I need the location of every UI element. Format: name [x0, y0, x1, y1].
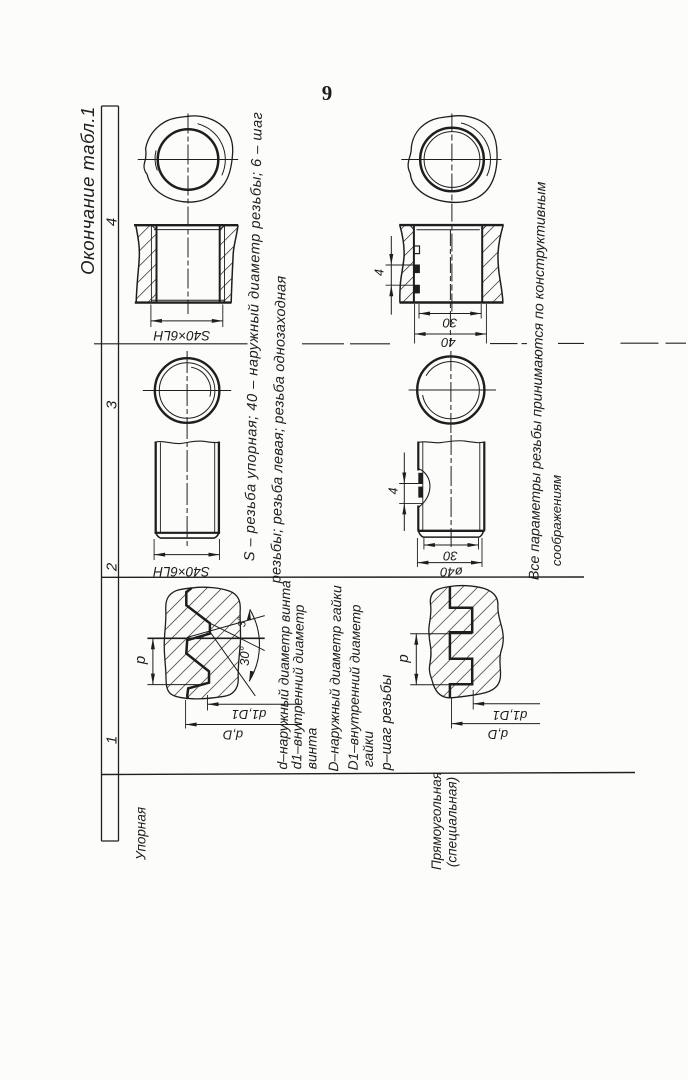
D6 blob outline: [408, 116, 497, 203]
D5 right part hatching: [186, 588, 240, 699]
D1-D2 vertical centerline: [187, 114, 189, 315]
D2 left wall hatching: [136, 225, 157, 302]
D9 right minor thin line: [479, 443, 481, 531]
D7 thread tooth lower: [414, 285, 420, 293]
D9 thread tooth lower: [418, 487, 423, 498]
svg-text:Упорная: Упорная: [134, 807, 149, 861]
D7 right wall hatching: [482, 225, 503, 302]
D2 right thread major line (thin): [224, 226, 226, 302]
D7 chamfer corner right: [482, 225, 486, 230]
D9 dim 30 arrows: [424, 543, 479, 547]
svg-text:d1,D1: d1,D1: [493, 708, 528, 723]
D5 d,D extension line: [185, 700, 187, 729]
D2 chamfer corner right: [220, 225, 225, 229]
D5 reference horizontal line: [147, 637, 264, 639]
svg-text:d,D: d,D: [488, 727, 508, 742]
D7 left bore line thick: [413, 226, 415, 303]
D5 left part hatching: [164, 588, 210, 699]
D1 thin thread arc top-right: [198, 124, 226, 176]
svg-text:9: 9: [322, 81, 333, 105]
D8 inner thin arc: [423, 362, 480, 419]
D7 dim 30 line: [419, 313, 481, 315]
D7 pitch dim extension upper: [386, 264, 420, 266]
D6 inner thin circle: [424, 132, 480, 188]
D7 centerline: [449, 230, 451, 345]
D1 thin arc left: [155, 151, 157, 171]
drawing D7: nut section with rectangular thread (row 4 right): [386, 225, 504, 345]
D2 right bore line (thick): [219, 226, 221, 302]
drawing D2: nut section view (row 4 left): [134, 225, 238, 327]
drawing D6: nut end view (row 4 right): [401, 114, 501, 315]
D9 dim 30 extension lines: [423, 538, 425, 550]
D7 pitch dim extension lower: [386, 284, 420, 286]
D10 right part hatching: [450, 586, 503, 698]
D8-D9 vertical centerline: [450, 351, 452, 547]
svg-text:Все параметры резьбы принимают: Все параметры резьбы принимаются по конс…: [527, 181, 550, 580]
D10 pitch dim arrows: [414, 634, 418, 685]
svg-text:d1,D1: d1,D1: [232, 707, 267, 722]
D4 right outer line thick: [218, 442, 220, 533]
D4 dimension arrows: [154, 553, 219, 557]
svg-text:гайки: гайки: [361, 731, 376, 768]
D10 d1,D1 extension line: [472, 690, 474, 710]
D5 blob outline: [164, 587, 240, 699]
D9 pitch dim arrows outside: [402, 473, 406, 515]
D9 end cap: [418, 531, 483, 537]
D9 notch scallop arc: [418, 469, 430, 508]
svg-text:d,D: d,D: [223, 728, 243, 743]
D9 pitch dim extension lower: [399, 502, 423, 504]
D5 d1,D1 extension line: [207, 695, 209, 711]
D4 top broken edge: [155, 441, 221, 444]
svg-text:резьбы; резьба левая; резьба о: резьбы; резьба левая; резьба однозаходна…: [268, 276, 289, 585]
row separator 3: [102, 773, 636, 775]
D10 pitch dimension line: [415, 634, 417, 685]
D7 dim 30 arrows: [419, 312, 481, 316]
D6 thin thread arc top-right: [461, 123, 491, 176]
D4 left minor line thin: [159, 443, 161, 533]
D7 top chamfer line: [417, 229, 480, 231]
svg-text:ø40: ø40: [440, 565, 463, 580]
svg-text:4: 4: [373, 269, 387, 276]
svg-text:соображениям: соображениям: [549, 475, 564, 566]
D5 flank extension line upper: [187, 616, 265, 638]
D7 thread tooth middle: [414, 265, 420, 273]
D2 dimension extension right: [222, 305, 224, 328]
D7 dim 40 line: [415, 333, 487, 335]
D5 flank extension line lower: [210, 632, 255, 696]
D4 end cap: [156, 533, 219, 538]
D7 dim 40 arrows: [415, 332, 487, 336]
D9 left outer line lower: [417, 506, 419, 531]
D2 chamfer corner left: [151, 225, 156, 229]
D9 dim ø40 line: [417, 562, 482, 564]
D3 horizontal centerline: [143, 390, 231, 392]
D2 left outer broken edge: [136, 225, 140, 302]
drawing D1: nut end view (row 4 left): [138, 114, 238, 315]
svg-text:р: р: [132, 656, 149, 665]
drawing D4: threaded sleeve side view (row 3 left): [154, 441, 220, 560]
svg-text:р: р: [395, 654, 412, 663]
drawing D9: threaded sleeve side view with notch (row 3 right): [399, 441, 485, 567]
D9 top broken edge: [418, 441, 485, 443]
svg-text:(специальная): (специальная): [445, 777, 460, 867]
D4 dimension extension right: [219, 539, 221, 560]
D5 flank extension line middle: [210, 623, 265, 650]
D2 right wall hatching: [220, 225, 238, 302]
D6-D7 vertical centerline: [451, 114, 453, 315]
D7 thread tooth upper faint: [414, 246, 420, 254]
D5 angle arc arrows: [247, 609, 254, 681]
row separator 1 solid part: [94, 343, 248, 345]
svg-text:30°: 30°: [237, 646, 252, 666]
D7 left outer broken edge: [400, 225, 404, 302]
D4 chamfer line bottom: [155, 532, 221, 534]
table band bottom tick: [102, 840, 119, 842]
D2 top edge: [134, 224, 238, 226]
D10 pitch extension line lower: [410, 684, 450, 686]
D5 d1,D1 dimension line with arrow: [208, 703, 303, 705]
D7 top edge: [399, 224, 503, 226]
D9 right outer line thick: [483, 442, 485, 531]
D7 left wall hatching: [400, 225, 414, 302]
drawing D8: thread end view (row 3 right): [409, 351, 496, 547]
D10 d,D extension line: [451, 699, 453, 729]
svg-text:2: 2: [104, 562, 121, 572]
D1 horizontal centerline: [138, 159, 238, 161]
D10 pitch extension line upper: [410, 633, 472, 635]
D8 horizontal centerline: [409, 389, 496, 391]
D2 bottom inner line: [151, 299, 224, 301]
D9 pitch dim extension upper: [399, 483, 423, 485]
D5 pitch extension line lower: [147, 684, 202, 686]
D6 thread major circle thick: [420, 128, 484, 192]
D9 pitch dimension line vertical: [403, 453, 405, 532]
D4 dimension line: [154, 554, 219, 556]
D2 bottom edge: [135, 301, 232, 303]
svg-text:Прямоугольная: Прямоугольная: [429, 772, 444, 870]
svg-text:30: 30: [443, 549, 458, 564]
D10 left part hatching: [429, 587, 472, 698]
svg-text:S40×6LH: S40×6LH: [153, 564, 210, 579]
svg-text:3°: 3°: [237, 616, 249, 627]
D5 d,D dimension line with arrow: [186, 724, 302, 726]
D6 horizontal centerline: [401, 159, 501, 161]
D1 thread major circle (thick): [158, 129, 219, 190]
D3 outer thick circle: [155, 358, 220, 423]
D8 outer thick circle: [417, 356, 484, 423]
D3 thin thread arc: [191, 367, 210, 396]
drawing D10: rectangular thread profile (row 2 right): [410, 586, 540, 729]
D7 bottom edge: [400, 301, 504, 303]
row separator 2: [102, 576, 585, 578]
svg-text:4: 4: [104, 218, 121, 226]
D2 right outer broken edge: [231, 225, 238, 302]
D4 left outer line thick: [155, 442, 157, 533]
svg-text:3: 3: [104, 400, 121, 409]
D5 pitch dimension arrows: [151, 638, 155, 684]
table column band: vertical line V2: [118, 106, 120, 841]
D9 thread tooth upper: [418, 473, 423, 484]
D2 left bore line (thick): [156, 226, 158, 302]
D1 blob outline: [144, 116, 233, 202]
svg-text:30: 30: [442, 316, 457, 331]
D9 left outer line upper: [417, 442, 419, 471]
D3-D4 vertical centerline: [186, 351, 188, 548]
table band top tick: [102, 105, 119, 107]
D3 inner thin circle: [159, 363, 215, 419]
D7 dim 30 extension lines: [418, 304, 420, 319]
drawing D5: buttress thread profile (row 2 left): [147, 587, 302, 728]
D2 left thread major line (thin): [150, 226, 152, 302]
drawing D3: thread end view (row 3 left): [143, 351, 231, 548]
D9 dim ø40 extension lines: [416, 538, 418, 567]
svg-text:4: 4: [387, 487, 401, 494]
D7 pitch dim arrows outside: [389, 254, 393, 296]
D10 d1,D1 dimension line with arrow: [473, 703, 540, 705]
D9 dim ø40 arrows: [417, 561, 482, 565]
D4 right minor line thin: [214, 443, 216, 533]
svg-text:р–шаг резьбы: р–шаг резьбы: [379, 674, 395, 771]
D5 pitch dimension line: [152, 638, 154, 684]
svg-text:40: 40: [441, 335, 456, 350]
D10 blob outline: [429, 586, 503, 698]
D2 dimension arrows: [151, 319, 223, 323]
D9 bottom edge thick: [418, 530, 485, 532]
D7 right bore line thick: [481, 226, 483, 303]
D10 thread profile thick square wave: [450, 586, 472, 698]
svg-text:S – резьба упорная; 40 – наруж: S – резьба упорная; 40 – наружный диамет…: [242, 112, 266, 562]
D5 thread profile thick zigzag: [186, 588, 210, 699]
D9 left minor thin line: [422, 443, 424, 531]
D2 dimension line: [151, 320, 223, 322]
row separator 1 dashed continuation: [302, 342, 686, 345]
svg-text:винта: винта: [305, 727, 320, 769]
D5 angle arc: [249, 609, 259, 681]
table column band: vertical line V1: [101, 106, 103, 841]
D7 pitch dimension line vertical: [390, 236, 392, 315]
D9 dim 30 line: [424, 544, 479, 546]
D2 top chamfer line: [154, 229, 222, 231]
D7 right outer broken edge: [498, 225, 503, 302]
D10 d,D dimension line with arrow: [452, 723, 541, 725]
svg-text:1: 1: [104, 736, 121, 744]
D7 chamfer corner left: [410, 225, 414, 230]
D4 dimension extension left: [153, 539, 155, 560]
svg-text:Окончание табл.1: Окончание табл.1: [77, 106, 98, 275]
D7 dim 40 extension lines: [414, 304, 416, 344]
svg-text:S40×6LH: S40×6LH: [153, 328, 210, 343]
svg-text:D–наружный диаметр гайки: D–наружный диаметр гайки: [325, 585, 344, 772]
D2 dimension extension left: [150, 305, 152, 328]
